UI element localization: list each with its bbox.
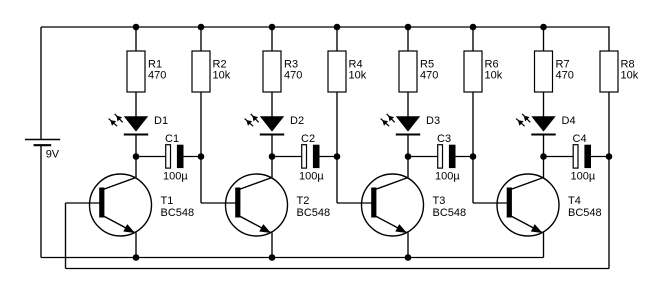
- svg-text:470: 470: [148, 69, 166, 81]
- svg-text:T4: T4: [568, 195, 581, 207]
- svg-text:470: 470: [420, 69, 438, 81]
- svg-text:BC548: BC548: [297, 207, 331, 219]
- svg-text:D4: D4: [562, 115, 576, 127]
- svg-text:C2: C2: [301, 133, 315, 145]
- svg-text:C3: C3: [437, 133, 451, 145]
- svg-text:10k: 10k: [485, 69, 503, 81]
- svg-text:470: 470: [284, 69, 302, 81]
- svg-text:470: 470: [556, 69, 574, 81]
- svg-text:T3: T3: [433, 195, 446, 207]
- svg-text:9V: 9V: [46, 149, 60, 161]
- svg-text:D1: D1: [154, 115, 168, 127]
- svg-text:100µ: 100µ: [571, 170, 596, 182]
- svg-text:C1: C1: [165, 133, 179, 145]
- svg-text:10k: 10k: [213, 69, 231, 81]
- svg-text:T1: T1: [161, 195, 174, 207]
- svg-text:BC548: BC548: [161, 207, 195, 219]
- svg-text:100µ: 100µ: [163, 170, 188, 182]
- svg-text:10k: 10k: [621, 69, 639, 81]
- svg-text:100µ: 100µ: [299, 170, 324, 182]
- svg-text:C4: C4: [573, 133, 587, 145]
- svg-text:D3: D3: [426, 115, 440, 127]
- svg-text:BC548: BC548: [433, 207, 467, 219]
- svg-text:100µ: 100µ: [435, 170, 460, 182]
- svg-text:BC548: BC548: [568, 207, 602, 219]
- svg-text:D2: D2: [290, 115, 304, 127]
- svg-text:T2: T2: [297, 195, 310, 207]
- svg-text:10k: 10k: [349, 69, 367, 81]
